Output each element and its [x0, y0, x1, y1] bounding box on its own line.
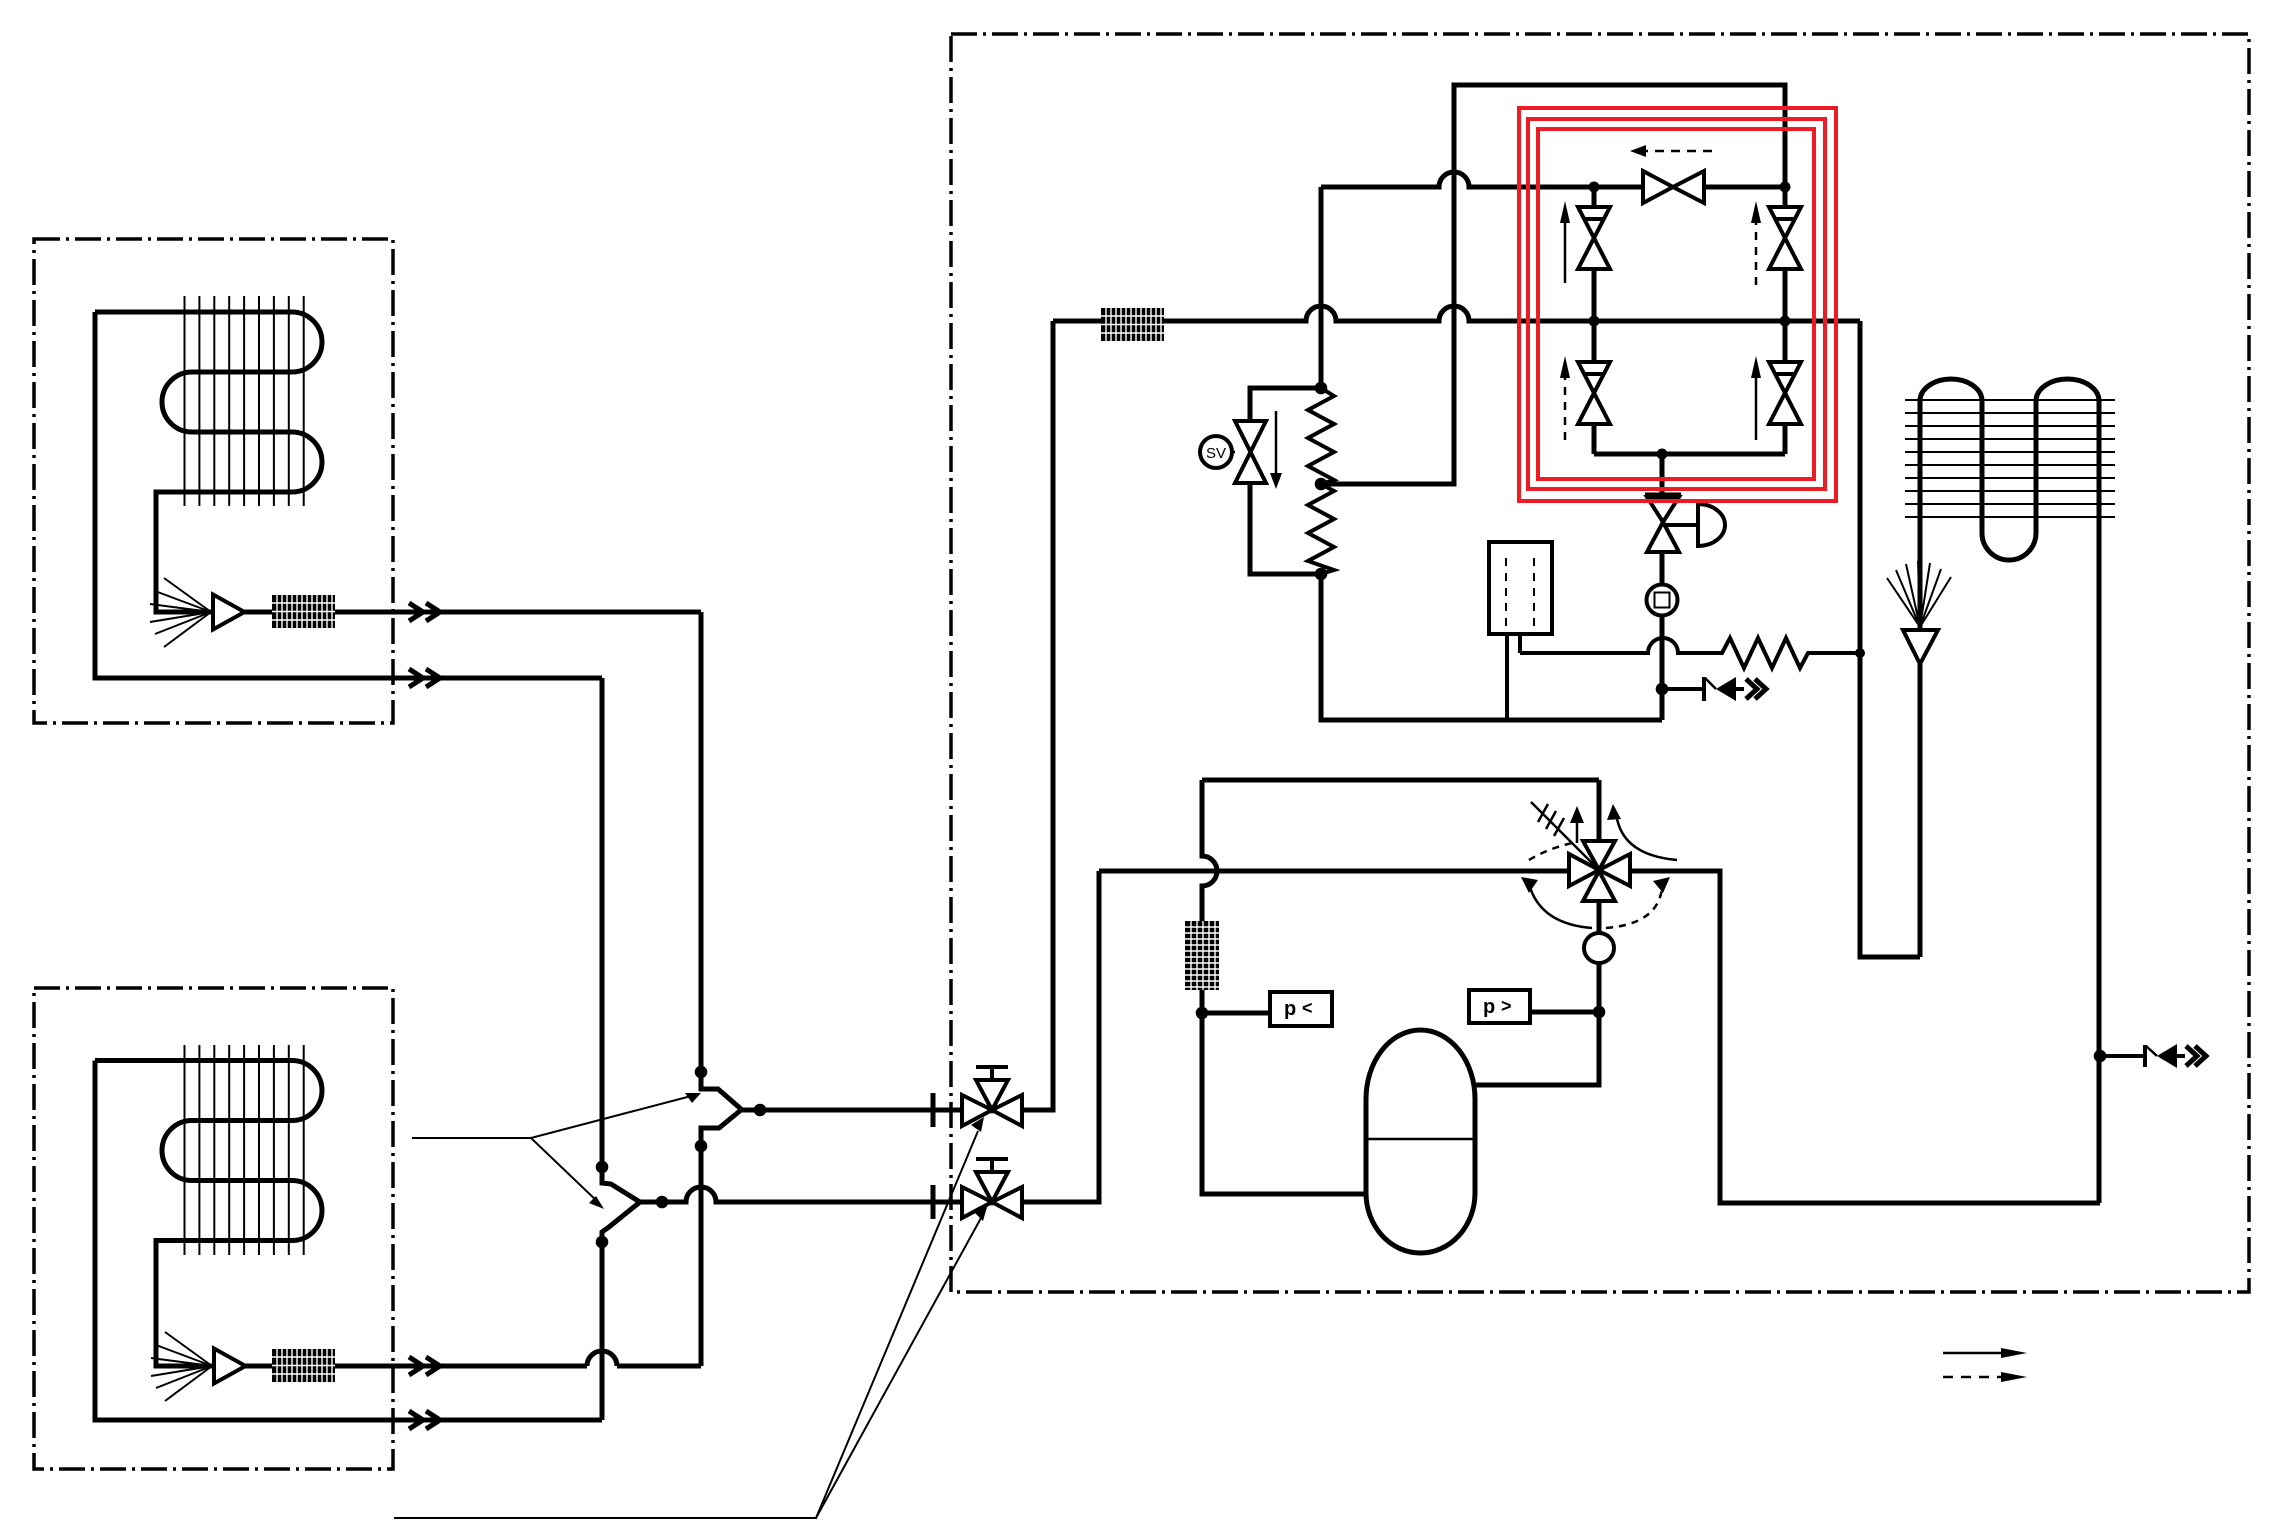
indoor unit 1 enclosure (dash-dot box): [34, 239, 393, 723]
connector zigzag to top loop: [1321, 482, 1454, 487]
pipe union tick (stop valve 2): [931, 1185, 936, 1219]
four-way valve actuator diagonal: [1531, 802, 1599, 870]
stop valve 1 (gas service valve): [962, 1080, 1022, 1126]
outdoor coil tube serpentine: [1920, 379, 2099, 1203]
fan outlet pipe: [1918, 664, 1923, 957]
pipe union tick (stop valve 1): [931, 1093, 936, 1127]
outdoor strainer (hatched filter): [1101, 308, 1164, 341]
sight glass (circle with square): [1660, 552, 1665, 585]
indoor unit 2 enclosure (dash-dot box): [34, 988, 393, 1469]
dashed up arrow (right upper): [1755, 214, 1758, 285]
pipe from stop valve 2 into outdoor unit: [1022, 871, 1099, 1202]
legend solid flow arrow: [1943, 1352, 2003, 1355]
check valve bridge: right lower check valve: [1783, 321, 1788, 454]
low pressure switch p<: [1202, 1011, 1270, 1016]
indoor unit 2 expansion device (triangle): [214, 1349, 246, 1384]
outdoor fan nozzle triangle: [1903, 630, 1938, 664]
service charge port 1: [1662, 687, 1704, 691]
high pressure switch p>: [1530, 1010, 1599, 1015]
riser pipe x=602 upper (unit1 gas line down): [602, 678, 640, 1202]
oil separator vessel: [1489, 542, 1552, 634]
riser pipe x=602 lower (unit2 gas line up): [602, 1202, 640, 1420]
svg-text:<: <: [1302, 998, 1313, 1018]
gas header pipe to stop valve 1: [741, 1108, 962, 1113]
outdoor fan spray lines: [1887, 561, 1951, 627]
bridge junction dots: [1589, 182, 1600, 193]
accumulator vessel: [1366, 1030, 1475, 1253]
line from bridge right to condenser drop: [1785, 321, 1920, 957]
riser pipe x=701 upper (unit1 liquid line down): [701, 612, 741, 1109]
legend dashed flow arrow: [1943, 1376, 2001, 1379]
muffler circle under four-way valve: [1584, 933, 1614, 963]
indoor unit 1 flow arrows on pipes: [409, 603, 440, 621]
svg-text:p: p: [1284, 998, 1296, 1020]
solenoid valve SV circle: [1200, 436, 1232, 468]
SV bypass piping: [1250, 388, 1321, 574]
four-way reversing valve: [1569, 841, 1630, 901]
indoor unit 2 strainer (hatched filter): [272, 1349, 335, 1382]
four-way valve flow arrows: [1529, 884, 1592, 928]
pipe zigzag bottom to oil separator return (y=720): [1321, 574, 1662, 720]
junction dots: [695, 1066, 708, 1079]
riser x=1321 (to zigzag HX): [1319, 187, 1324, 388]
leader callout (branch joint pointers): [412, 1095, 695, 1203]
indoor unit 2 coil fins: [185, 1045, 304, 1255]
svg-text:SV: SV: [1206, 445, 1226, 462]
down flow arrow beside SV: [1275, 411, 1278, 477]
leader callout (stop valve pointers): [394, 1131, 981, 1518]
capillary line with restrictor zigzag: [1520, 638, 1860, 668]
outdoor unit enclosure (dash-dot box): [951, 34, 2249, 1292]
indoor unit 2 liquid pipe: [246, 1364, 702, 1369]
pipe from stop valve 1 into outdoor unit: [1022, 321, 1053, 1110]
solid up arrow (right lower): [1755, 367, 1758, 440]
indoor unit 1 liquid pipe: [245, 610, 702, 615]
pilot half-circle of regulator: [1698, 504, 1725, 546]
solid up arrow (left upper): [1564, 212, 1567, 283]
liquid header pipe to stop valve 2 with hop over riser: [640, 1187, 962, 1202]
zigzag heat exchanger upper section: [1308, 388, 1334, 484]
outdoor coil fins: [1905, 400, 2115, 517]
liquid line with strainer (y=321): [1053, 306, 1860, 321]
pipe hop (unit 2 liquid pipe over riser): [587, 1351, 617, 1366]
indoor unit 2 coil tube (heat exchanger serpentine): [95, 1061, 322, 1367]
four-way valve line from stop valve 2: [1099, 869, 1569, 874]
service charge port 2: [2094, 1050, 2107, 1063]
svg-text:>: >: [1501, 996, 1512, 1016]
indoor unit 1 suction pipe loop: [95, 312, 602, 678]
check valve bridge: left lower check valve: [1592, 321, 1597, 454]
stop valve 2 (liquid service valve): [962, 1172, 1022, 1218]
check valve bridge bottom bar: [1594, 452, 1785, 457]
pressure regulating valve below bridge: [1660, 454, 1665, 493]
gate valve on bypass line: [1643, 171, 1704, 203]
indoor unit 1 strainer (hatched filter): [272, 595, 335, 628]
check valve bridge: right upper check valve: [1783, 187, 1788, 321]
zigzag junction dots: [1315, 382, 1328, 395]
top discharge loop rectangle: [1321, 85, 1785, 484]
four-way valve ports: [1599, 780, 2100, 1203]
indoor unit 2 flow arrows on pipes: [409, 1357, 440, 1375]
suction strainer (hatched filter, vertical): [1185, 921, 1219, 990]
indoor unit 2 suction pipe loop: [95, 1061, 602, 1421]
dashed up arrow (left lower): [1564, 369, 1567, 440]
indoor unit 1 coil fins: [185, 296, 304, 506]
oil separator port stubs: [1507, 634, 1520, 720]
zigzag heat exchanger lower section: [1308, 484, 1334, 574]
dashed flow arrow above gate valve: [1646, 150, 1712, 153]
check valve bridge: left upper check valve: [1592, 187, 1597, 321]
riser pipe x=701 lower (unit2 liquid line up): [701, 1110, 741, 1366]
indoor unit 1 coil tube (heat exchanger serpentine): [95, 312, 322, 612]
red highlight box (triple rectangle): [1519, 108, 1836, 501]
lower loop top line: [1202, 778, 1599, 783]
bypass line (y=187) with hop: [1321, 172, 1785, 187]
indoor unit 2 expansion nozzle spray lines: [151, 1332, 212, 1401]
left downcomer with hop over 4-way line: [1202, 780, 1366, 1194]
indoor unit 1 expansion device (triangle): [213, 595, 245, 630]
indoor unit 1 expansion nozzle spray lines: [150, 578, 211, 647]
svg-text:p: p: [1483, 996, 1495, 1018]
solenoid valve body: [1235, 421, 1266, 483]
